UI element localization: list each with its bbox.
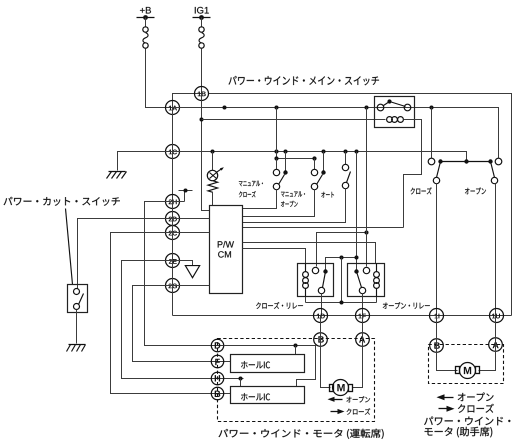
wire — [276, 108, 278, 159]
node — [239, 377, 243, 381]
wire — [305, 297, 307, 303]
label power cut switch — [4, 197, 120, 206]
connector pin A (pass) — [489, 338, 503, 352]
node — [365, 106, 369, 110]
wire — [212, 193, 214, 206]
wire close relay NC feed — [317, 233, 367, 267]
arrow close (driver) — [338, 409, 345, 414]
wire open relay coil feed — [243, 243, 376, 264]
wire coil rail — [306, 302, 377, 304]
wire — [295, 346, 297, 355]
label close relay — [256, 302, 303, 309]
node — [284, 150, 288, 154]
wire bar — [277, 158, 315, 160]
wire — [437, 316, 458, 371]
wire — [285, 152, 287, 171]
label P/W CM — [218, 241, 234, 248]
label open relay — [383, 302, 430, 309]
motor M1 (driver) — [330, 385, 334, 392]
wire 2H to D — [145, 202, 224, 346]
relay RL3 coil — [376, 264, 378, 272]
wire contact bar — [441, 161, 491, 163]
connector pin 2E — [166, 254, 180, 268]
wire 2C to B — [111, 233, 231, 394]
connector pin A (driver) — [356, 333, 370, 347]
wire 2E to H — [122, 261, 244, 379]
wire close relay coil feed — [243, 249, 306, 264]
connector pin H — [211, 372, 223, 384]
relay RL1 contact — [377, 104, 384, 111]
fuse F2 (IG1) — [199, 27, 204, 32]
wire — [356, 152, 358, 270]
lamp (illumination) — [207, 170, 217, 180]
connector pin 1B — [195, 87, 209, 101]
wire connector column — [172, 202, 174, 316]
wire 1C bus — [118, 152, 467, 171]
wire — [173, 261, 193, 266]
wire — [173, 285, 210, 287]
relay RL2 (close) box — [298, 264, 334, 297]
label auto — [321, 192, 334, 198]
P/W CM box — [210, 206, 243, 294]
wire — [495, 184, 497, 316]
connector pin B2 — [211, 387, 223, 399]
wire — [146, 49, 173, 108]
wire — [345, 152, 347, 165]
arrow close (passenger) — [447, 406, 455, 412]
switch open (sub) — [491, 162, 495, 178]
connector pin 1F — [356, 309, 370, 323]
wire D wrap — [224, 346, 316, 387]
arrow open (passenger) — [437, 394, 445, 400]
wire — [243, 189, 346, 223]
relay RL1 box — [375, 97, 415, 128]
relay RL2 contact — [312, 267, 318, 273]
node — [322, 150, 326, 154]
ground — [69, 344, 86, 346]
arrow open (driver) — [328, 397, 335, 402]
label manual-close — [239, 181, 263, 187]
relay RL2 coil — [305, 264, 307, 272]
wire +B rail — [173, 108, 499, 159]
connector pin 1I — [430, 309, 444, 323]
label passenger motor 2 — [425, 427, 493, 438]
wire 2H stub — [173, 201, 185, 203]
wire — [321, 294, 323, 316]
wire — [212, 152, 214, 171]
wire — [353, 316, 363, 388]
wire relay coil feed — [202, 119, 386, 121]
node — [464, 159, 468, 163]
wire — [404, 120, 422, 228]
wire — [436, 184, 438, 316]
node — [294, 344, 298, 348]
label open — [465, 188, 486, 195]
node — [355, 256, 359, 260]
relay RL1 coil — [387, 117, 393, 123]
wire — [76, 310, 78, 344]
wire IG1 feed — [202, 94, 210, 211]
node — [365, 231, 369, 235]
node — [211, 150, 215, 154]
switch contact — [428, 158, 435, 165]
connector pin 1A — [166, 101, 180, 115]
wire — [321, 316, 331, 388]
switch close (sub) — [437, 162, 441, 178]
connector pin 1D — [314, 309, 328, 323]
wire — [243, 190, 315, 217]
node +B — [140, 7, 151, 14]
wire — [243, 227, 404, 229]
ground — [109, 171, 126, 173]
node — [355, 150, 359, 154]
connector pin 1C — [166, 145, 180, 159]
ground (floating) triangle — [185, 266, 199, 278]
connector pin 2H — [166, 195, 180, 209]
switch manual-open — [311, 169, 317, 175]
fuse F1 (+B) — [143, 27, 148, 32]
driver motor boundary (dashed) — [218, 339, 375, 422]
node — [430, 106, 434, 110]
wire — [431, 108, 433, 159]
hall IC 2 box — [231, 387, 305, 404]
wire — [201, 18, 203, 28]
label manual-open — [281, 191, 305, 197]
relay RL3 (open) box — [348, 264, 385, 297]
wire — [173, 232, 210, 234]
wire — [173, 94, 202, 108]
node — [488, 159, 492, 163]
power window main switch boundary — [209, 94, 512, 316]
motor M2 (passenger) — [456, 367, 460, 374]
node — [223, 106, 227, 110]
leader — [66, 209, 73, 285]
relay RL3 contact — [354, 269, 358, 273]
wire — [314, 159, 316, 170]
wire — [323, 152, 325, 171]
wire main switch bottom rail — [173, 315, 512, 317]
hall IC 1 box — [231, 355, 305, 373]
wire com link — [326, 258, 357, 270]
label passenger motor 1 — [424, 417, 510, 426]
connector pin D — [211, 339, 223, 351]
node — [200, 118, 204, 122]
node — [184, 189, 188, 193]
connector pin 2C — [166, 226, 180, 240]
node — [344, 150, 348, 154]
wire — [243, 190, 277, 209]
switch contact — [495, 158, 502, 165]
switch auto — [342, 164, 348, 170]
wire — [240, 379, 242, 387]
connector pin B (driver) — [314, 333, 328, 347]
node IG1 — [195, 7, 209, 14]
wire 2G to F — [133, 286, 231, 362]
label close — [411, 187, 432, 194]
connector pin 1U — [490, 309, 504, 323]
node — [274, 156, 278, 160]
node — [275, 150, 279, 154]
node — [275, 106, 279, 110]
connector pin B (pass) — [430, 339, 444, 353]
wire — [173, 218, 210, 220]
node — [340, 301, 344, 305]
switch manual-close — [273, 169, 279, 175]
wire — [341, 258, 343, 303]
resistor R1 — [208, 181, 218, 193]
node — [340, 256, 344, 260]
connector pin 2G — [166, 279, 180, 293]
connector pin 2D — [166, 212, 180, 226]
wire 2D to cut switch — [78, 219, 173, 289]
connector pin F — [211, 355, 223, 367]
wire — [479, 316, 496, 371]
wire — [362, 294, 364, 316]
wire — [366, 108, 368, 267]
label power window main switch — [229, 76, 379, 85]
wire — [276, 159, 278, 170]
power cut switch SW1 — [68, 285, 88, 313]
passenger motor boundary (dashed) — [429, 345, 504, 384]
node — [438, 159, 442, 163]
node — [312, 156, 316, 160]
label driver motor — [219, 429, 384, 439]
wire — [201, 49, 203, 94]
wire connector column — [172, 108, 174, 202]
wire — [145, 18, 147, 28]
